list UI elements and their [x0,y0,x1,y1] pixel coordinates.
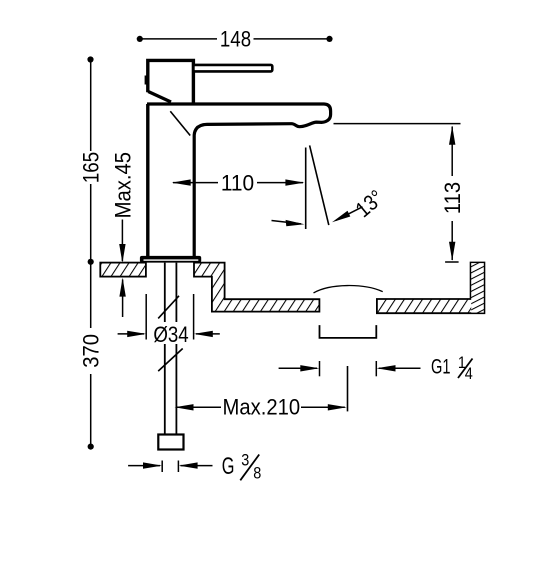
svg-text:370: 370 [80,334,104,368]
svg-text:8: 8 [253,464,261,482]
svg-text:Max.45: Max.45 [112,152,136,218]
svg-text:113: 113 [441,182,465,214]
svg-text:110: 110 [221,171,254,196]
svg-text:3: 3 [241,451,249,469]
svg-text:G1: G1 [431,354,450,379]
svg-text:Max.210: Max.210 [223,396,301,420]
svg-text:148: 148 [220,28,251,52]
svg-text:G: G [222,453,235,480]
svg-text:Ø34: Ø34 [153,324,188,348]
svg-text:165: 165 [80,152,104,183]
